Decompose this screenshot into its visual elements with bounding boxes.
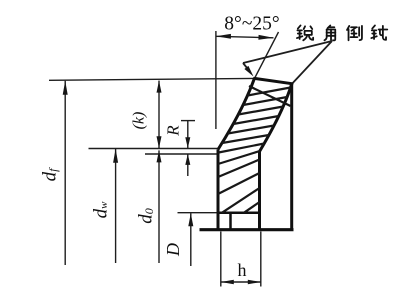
svg-text:8°~25°: 8°~25° bbox=[224, 14, 279, 35]
svg-text:D: D bbox=[163, 243, 183, 257]
svg-text:d0: d0 bbox=[135, 208, 156, 224]
svg-text:h: h bbox=[238, 260, 247, 280]
dimension line d_f bbox=[63, 81, 68, 265]
washer inner right vertical bbox=[258, 152, 261, 230]
dimension line R upper with tick bbox=[181, 121, 195, 149]
section hatching bbox=[218, 86, 291, 213]
label h bbox=[238, 260, 247, 280]
washer left vertical bbox=[217, 150, 220, 230]
svg-text:R: R bbox=[163, 125, 182, 137]
h right extension bbox=[260, 232, 262, 287]
svg-text:dw: dw bbox=[90, 201, 111, 219]
washer outer right edge bbox=[290, 84, 293, 230]
leader line C to right sharp corner bbox=[292, 41, 332, 84]
dimension line h bbox=[221, 280, 261, 285]
label d_w bbox=[90, 201, 111, 219]
label d_f bbox=[39, 167, 60, 182]
label R bbox=[163, 125, 182, 137]
dimension line d_0 bbox=[157, 150, 162, 263]
svg-text:(k): (k) bbox=[131, 112, 148, 130]
angle dimension line with arrows bbox=[216, 34, 274, 40]
extension line d_0 level bbox=[145, 153, 220, 155]
extension line D level bbox=[178, 212, 221, 214]
washer bottom divider bbox=[229, 213, 232, 230]
extension line d_w level bbox=[89, 148, 219, 150]
label k bbox=[131, 112, 148, 130]
washer band left edge bbox=[218, 78, 254, 149]
dimension line R lower bbox=[185, 154, 190, 176]
angle vertical extension line bbox=[215, 31, 217, 129]
washer bottom edge bbox=[200, 228, 294, 231]
angle slanted extension line bbox=[255, 32, 279, 78]
dimension line D bbox=[188, 213, 193, 266]
washer band right edge bbox=[260, 85, 292, 152]
label D bbox=[163, 243, 183, 257]
note text rui jiao dao dun bbox=[297, 25, 387, 40]
svg-text:df: df bbox=[39, 167, 60, 182]
angle text 8-25 deg bbox=[224, 14, 279, 35]
dimension line d_w bbox=[113, 149, 118, 263]
label d_0 bbox=[135, 208, 156, 224]
leader arrow B to left sharp corner bbox=[243, 63, 254, 77]
extension line top d_f level bbox=[49, 78, 255, 80]
h left extension bbox=[220, 232, 222, 287]
washer step line bbox=[218, 211, 260, 214]
leader line A bbox=[243, 41, 332, 63]
washer end face bbox=[254, 78, 292, 83]
dimension line k bbox=[157, 81, 162, 149]
